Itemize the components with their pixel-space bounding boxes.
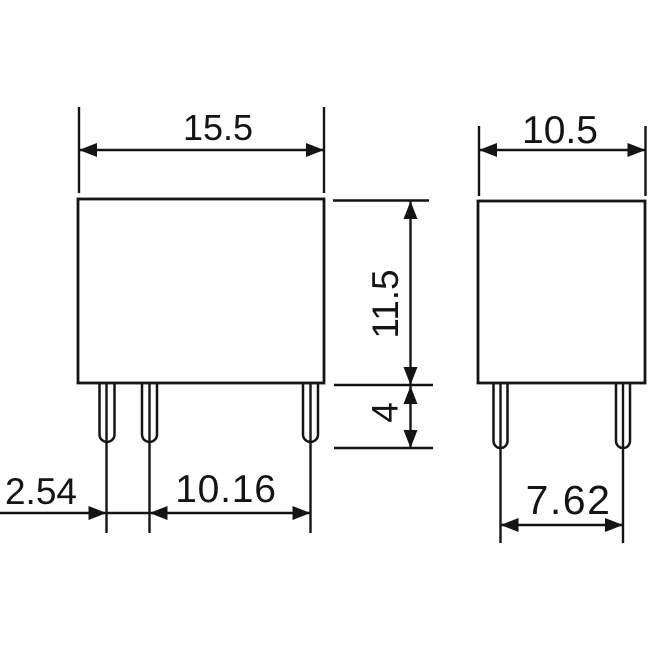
dimension 10.16 line — [150, 512, 311, 514]
dimension 15.5 arrow right — [306, 143, 324, 157]
side pin 2 center extension line — [622, 384, 624, 543]
dimension 7.62 arrow right — [605, 518, 623, 532]
pin 1 front view — [100, 384, 115, 442]
dimension 10.5 line — [479, 149, 646, 151]
side pin 2 — [616, 384, 630, 448]
dimension 11.5 line — [409, 201, 411, 385]
dimension 4 arrow up — [404, 386, 418, 404]
svg-text:4: 4 — [365, 402, 406, 423]
dimension 10.5 extension line right — [644, 126, 646, 196]
dimension 15.5 arrow left — [79, 143, 97, 157]
dimension 11.5 extension line top — [333, 199, 429, 201]
dimension 11.5 extension line bottom — [334, 384, 433, 386]
svg-text:10.5: 10.5 — [522, 109, 598, 152]
dimension 10.16 arrow right — [293, 506, 311, 520]
dimension 10.5 arrow left — [479, 143, 497, 157]
dimension 4 line — [409, 385, 411, 448]
dimension 15.5 extension line left — [78, 107, 80, 193]
side pin 1 — [494, 384, 508, 448]
svg-text:11.5: 11.5 — [365, 269, 406, 338]
dimension 15.5 extension line right — [323, 107, 325, 193]
dimension 10.5 extension line left — [478, 126, 480, 196]
dimension 10.16 arrow left — [150, 506, 168, 520]
pin 3 front view — [303, 384, 318, 442]
dimension 11.5 arrow down — [404, 367, 418, 385]
relay body front view — [78, 199, 324, 383]
svg-text:7.62: 7.62 — [526, 477, 612, 523]
dimension 7.62 line — [501, 524, 624, 526]
dimension 11.5 arrow up — [404, 201, 418, 219]
dimension 15.5 line — [79, 149, 324, 151]
dimension 2.54 arrow right — [89, 506, 107, 520]
relay body side view — [478, 201, 645, 383]
dimension 7.62 arrow left — [501, 518, 519, 532]
pin 1 center extension line — [105, 384, 107, 533]
pin 2 center extension line — [148, 384, 150, 533]
dimension 4 extension line bottom — [334, 447, 433, 449]
pin 3 center extension line — [309, 384, 311, 533]
pin 2 front view — [142, 384, 157, 442]
svg-text:15.5: 15.5 — [183, 107, 253, 148]
svg-text:2.54: 2.54 — [5, 471, 77, 512]
dimension 4 arrow down — [404, 430, 418, 448]
dimension 10.5 arrow right — [628, 143, 646, 157]
dimension 2.54 line — [0, 512, 150, 514]
svg-text:10.16: 10.16 — [175, 468, 277, 511]
side pin 1 center extension line — [499, 384, 501, 543]
